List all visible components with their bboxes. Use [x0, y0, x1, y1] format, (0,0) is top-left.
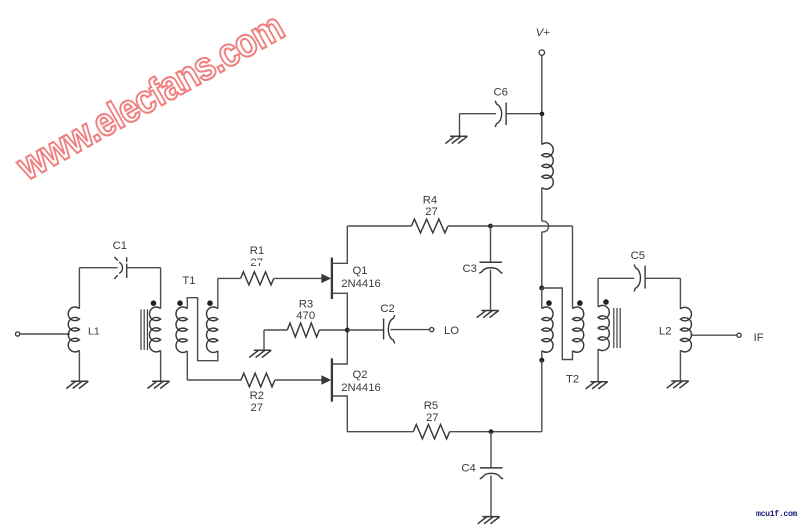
wire T1 primary bottom to R2: [187, 379, 241, 381]
capacitor C1: [114, 257, 126, 279]
transformer T1 secondary winding: [207, 307, 218, 352]
ground under input link coil: [148, 381, 170, 388]
resistor R3: [287, 323, 319, 337]
svg-text:C1: C1: [113, 240, 127, 252]
svg-text:C3: C3: [462, 263, 476, 275]
ground under C3: [477, 311, 499, 318]
transformer T1 primary winding: [176, 307, 187, 352]
resistor R5: [413, 425, 449, 439]
ground under C6: [445, 136, 467, 143]
input link coil winding: [149, 307, 160, 381]
terminal IF: [737, 333, 741, 337]
ground under R3: [249, 350, 271, 357]
svg-text:R1: R1: [250, 245, 264, 257]
ground under L1: [66, 381, 88, 388]
wire Q1 drain to R4: [347, 225, 411, 227]
capacitor C2: [384, 315, 395, 344]
wire C2 to LO terminal: [391, 329, 430, 331]
junction sources of Q1 Q2: [345, 328, 350, 333]
transformer T2 secondary winding: [573, 307, 584, 352]
label C2: [380, 303, 394, 315]
svg-text:2N4416: 2N4416: [341, 278, 381, 290]
transistor Q2: [332, 330, 347, 432]
svg-text:T1: T1: [182, 275, 195, 287]
svg-text:R4: R4: [423, 195, 437, 207]
label R3: [299, 298, 313, 310]
svg-text:27: 27: [426, 412, 439, 424]
wire V+ to C6 junction: [541, 56, 543, 145]
wire T2 primary bottom to R5 line: [541, 360, 543, 432]
capacitor C6: [495, 101, 506, 127]
gate arrow Q1: [321, 274, 331, 283]
svg-text:C2: C2: [380, 303, 394, 315]
svg-text:C6: C6: [493, 86, 507, 98]
inductor L2: [680, 307, 691, 381]
svg-text:T2: T2: [566, 373, 579, 385]
label T2: [566, 373, 579, 385]
wire junction to T2 secondary top: [491, 226, 573, 309]
wire C6 to ground: [460, 114, 497, 137]
wire RFC to crossover: [541, 188, 543, 222]
wire ground to R3: [264, 330, 287, 350]
label Q2: [352, 369, 367, 381]
label C5: [631, 250, 645, 262]
label L2: [659, 326, 672, 338]
wire T1 primary bottom: [186, 351, 188, 380]
transistor Q1: [332, 226, 347, 330]
footer mcu1f.com: [756, 509, 798, 519]
gate arrow Q2: [321, 375, 331, 384]
wire crossover hop: [542, 221, 549, 232]
svg-text:27: 27: [425, 206, 438, 218]
wire R5 to C4 junction: [450, 431, 542, 433]
wire R3 to source junction: [319, 329, 347, 331]
label R4: [423, 195, 437, 207]
label C6: [493, 86, 507, 98]
svg-text:27: 27: [250, 257, 263, 269]
label T1: [182, 275, 195, 287]
wire T1 primary top to secondary bottom: [187, 298, 218, 361]
svg-text:2N4416: 2N4416: [341, 382, 381, 394]
wire crossover to T2 center junction: [541, 232, 543, 288]
label R4 value 27: [425, 206, 438, 218]
wire R2 to Q2 gate: [275, 379, 322, 381]
wire L1 top to C1: [79, 267, 117, 269]
label Q1: [352, 265, 367, 277]
svg-text:www.elecfans.com: www.elecfans.com: [8, 4, 290, 189]
label R5 value 27: [426, 412, 439, 424]
wire C1 to input link coil: [127, 268, 161, 309]
core of input transformer: [141, 310, 147, 351]
label Q2 part 2N4416: [341, 382, 381, 394]
junction R5 line and C4: [489, 429, 494, 434]
transformer T2 primary winding: [542, 288, 553, 360]
resistor R4: [411, 219, 448, 233]
svg-text:Q1: Q1: [352, 265, 367, 277]
label LO: [444, 325, 459, 337]
svg-text:C4: C4: [461, 463, 475, 475]
junction C6 and V+ line: [540, 112, 545, 117]
inductor L1: [68, 268, 79, 382]
polarity dot T2 primary: [546, 300, 552, 306]
capacitor C5: [634, 264, 645, 291]
label Q1 part 2N4416: [341, 278, 381, 290]
resistor R2: [241, 373, 275, 387]
wire R1 to Q1 gate: [274, 277, 322, 279]
watermark www.elecfans.com: [8, 4, 290, 189]
ground under output link coil: [586, 382, 608, 389]
label C4: [461, 463, 475, 475]
ground under C4: [478, 517, 500, 524]
wire Q2 drain to R5: [347, 431, 413, 433]
junction R4 line and C3: [488, 224, 493, 229]
wire center tap to T2 secondary bottom: [542, 288, 573, 360]
wire junction to C2: [347, 329, 383, 331]
svg-text:L2: L2: [659, 326, 672, 338]
label R2: [250, 390, 264, 402]
svg-text:27: 27: [251, 402, 264, 414]
svg-text:Q2: Q2: [352, 369, 367, 381]
label R1 value 27: [249, 257, 264, 269]
inductor RFC: [542, 143, 553, 189]
polarity dot T1 secondary: [207, 300, 213, 306]
svg-text:C5: C5: [631, 250, 645, 262]
svg-text:R3: R3: [299, 298, 313, 310]
svg-text:L1: L1: [88, 326, 100, 338]
terminal V+: [539, 50, 544, 55]
svg-text:IF: IF: [754, 332, 764, 344]
svg-text:LO: LO: [444, 325, 459, 337]
wire C5 to L2: [645, 278, 680, 309]
polarity dot T2 secondary: [577, 300, 583, 306]
core of output transformer: [614, 308, 620, 348]
svg-text:R2: R2: [250, 390, 264, 402]
resistor R1: [241, 272, 274, 285]
label R3 value 470: [296, 310, 315, 322]
wire C6 to V+ line: [506, 113, 540, 115]
svg-text:V+: V+: [536, 27, 551, 39]
wire L2 tap to IF terminal: [691, 334, 736, 336]
label C1: [113, 240, 127, 252]
svg-text:R5: R5: [424, 400, 438, 412]
label R5: [424, 400, 438, 412]
junction T2 center tap: [539, 286, 544, 291]
capacitor C4: [480, 432, 503, 517]
label C3: [462, 263, 476, 275]
terminal RF input: [16, 332, 20, 336]
label R1: [250, 245, 264, 257]
output link coil winding: [598, 278, 609, 381]
label L1: [88, 326, 100, 338]
label V+: [536, 27, 551, 39]
terminal LO: [430, 328, 434, 332]
capacitor C3: [479, 226, 502, 311]
polarity dot output link coil: [603, 299, 609, 305]
wire link coil to C5: [598, 277, 634, 279]
ground under L2: [667, 381, 689, 388]
svg-text:470: 470: [296, 310, 315, 322]
polarity dot input link coil: [151, 300, 157, 306]
junction T2 primary bottom: [539, 358, 544, 363]
label IF: [754, 332, 764, 344]
wire R4 to C3 junction: [448, 225, 491, 227]
svg-text:mcu1f.com: mcu1f.com: [756, 509, 798, 519]
polarity dot T1 primary: [177, 300, 183, 306]
label R2 value 27: [251, 402, 264, 414]
wire T1 secondary top to R1: [218, 278, 241, 308]
wire RF input to L1 tap: [20, 333, 70, 335]
